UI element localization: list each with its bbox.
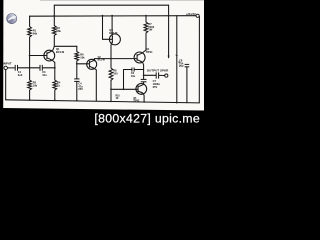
svg-text:2u2: 2u2 (18, 73, 23, 77)
svg-text:BD139: BD139 (109, 31, 118, 35)
svg-text:OUTPUT SPKR: OUTPUT SPKR (147, 68, 169, 72)
svg-text:1W: 1W (148, 28, 152, 32)
svg-text:100: 100 (113, 71, 118, 75)
svg-text:+20-24V: +20-24V (186, 12, 196, 16)
svg-text:10u: 10u (131, 74, 136, 78)
svg-text:25V: 25V (78, 87, 83, 91)
svg-text:25V: 25V (179, 64, 184, 68)
svg-text:56k: 56k (57, 29, 62, 33)
svg-text:TIP41: TIP41 (146, 50, 153, 54)
svg-text:10k: 10k (80, 55, 85, 59)
svg-text:56k: 56k (33, 31, 38, 35)
svg-text:BC149: BC149 (98, 58, 106, 61)
svg-text:1R: 1R (116, 98, 119, 100)
svg-text:BC149: BC149 (56, 50, 65, 54)
svg-text:INPUT: INPUT (3, 61, 12, 65)
svg-text:25V: 25V (153, 85, 158, 89)
svg-text:[800x427] upic.me: [800x427] upic.me (94, 111, 200, 125)
svg-text:10u: 10u (42, 73, 47, 77)
svg-text:TIP42: TIP42 (133, 100, 140, 103)
svg-text:10k: 10k (33, 83, 38, 87)
